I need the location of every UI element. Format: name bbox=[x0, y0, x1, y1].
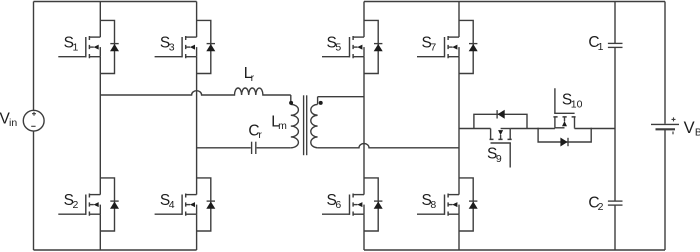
svg-text:1: 1 bbox=[73, 42, 79, 54]
transistor S2 (with body diode) bbox=[58, 178, 119, 231]
transistor S6 (with body diode) bbox=[322, 178, 383, 231]
wire Lr to transformer bbox=[263, 94, 291, 96]
wire top bus left bbox=[34, 1, 197, 3]
transistor S3 (with body diode) bbox=[155, 20, 216, 73]
svg-text:in: in bbox=[9, 117, 17, 129]
label Lm bbox=[271, 114, 287, 133]
transistor S9 (horizontal, gate below, with anti-parallel diode cathode-left) bbox=[474, 110, 527, 171]
capacitor Cr bbox=[252, 142, 291, 154]
wire leg D (S7/S8 bridge leg) bbox=[458, 2, 460, 251]
label S10 bbox=[562, 91, 583, 110]
transformer primary winding Lm bbox=[291, 95, 299, 148]
svg-text:5: 5 bbox=[335, 42, 341, 54]
transformer secondary dot bbox=[319, 101, 323, 105]
wire primary mid rail with hop over leg B bbox=[100, 91, 233, 95]
label S1 bbox=[64, 34, 79, 53]
wire secondary top (to leg C mid) bbox=[318, 96, 364, 98]
wire output mid rail segments bbox=[459, 128, 615, 130]
transformer primary dot bbox=[289, 101, 293, 105]
svg-text:7: 7 bbox=[430, 42, 436, 54]
capacitor C1 bbox=[608, 2, 623, 129]
svg-text:6: 6 bbox=[335, 199, 341, 211]
svg-text:10: 10 bbox=[571, 99, 583, 111]
capacitor C2 bbox=[608, 129, 623, 251]
wire S10 drain-source stubs to rail level bbox=[555, 127, 575, 130]
svg-text:2: 2 bbox=[598, 201, 604, 213]
label VB bbox=[684, 119, 700, 138]
wire bottom bus right bbox=[364, 249, 665, 251]
svg-text:B: B bbox=[695, 126, 700, 138]
battery VB bbox=[651, 2, 679, 251]
svg-text:r: r bbox=[251, 72, 255, 84]
label S3 bbox=[160, 34, 175, 53]
label S6 bbox=[327, 192, 342, 211]
transformer core bbox=[304, 95, 307, 155]
wire tank bottom (leg B mid to Cr) bbox=[197, 147, 251, 149]
label S2 bbox=[64, 192, 79, 211]
label C2 bbox=[588, 194, 603, 213]
gate lead trims (white overlays) bbox=[510, 84, 555, 171]
label Lr bbox=[244, 65, 255, 84]
transistor S4 (with body diode) bbox=[155, 178, 216, 231]
wire top bus right bbox=[364, 1, 665, 3]
label S8 bbox=[422, 192, 437, 211]
source Vin bbox=[23, 2, 44, 251]
svg-text:3: 3 bbox=[169, 42, 175, 54]
wire bottom bus left bbox=[34, 249, 197, 251]
svg-text:4: 4 bbox=[169, 199, 175, 211]
inductor Lr bbox=[233, 88, 263, 95]
svg-text:2: 2 bbox=[73, 199, 79, 211]
transistor S8 (with body diode) bbox=[417, 178, 478, 231]
label Vin bbox=[0, 110, 17, 129]
svg-text:m: m bbox=[278, 120, 287, 132]
wire secondary bottom with hop over leg C (to leg D mid) bbox=[318, 144, 459, 148]
svg-text:8: 8 bbox=[430, 199, 436, 211]
wire leg B (S3/S4 bridge leg) bbox=[196, 2, 198, 251]
svg-text:9: 9 bbox=[496, 153, 502, 165]
transistor S5 (with body diode) bbox=[322, 20, 383, 73]
label S9 bbox=[487, 146, 502, 165]
transistor S7 (with body diode) bbox=[417, 20, 478, 73]
svg-text:r: r bbox=[258, 129, 262, 141]
label S7 bbox=[422, 34, 437, 53]
label S4 bbox=[160, 192, 175, 211]
transistor S10 (horizontal, gate above, with anti-parallel diode cathode-right) bbox=[538, 86, 591, 147]
svg-text:1: 1 bbox=[598, 41, 604, 53]
wire leg C (S5/S6 bridge leg) bbox=[363, 2, 365, 251]
label Cr bbox=[248, 123, 262, 142]
label C1 bbox=[588, 34, 603, 53]
svg-text:V: V bbox=[684, 119, 695, 137]
wire leg A (S1/S2 bridge leg) bbox=[99, 2, 101, 251]
label S5 bbox=[327, 34, 342, 53]
transistor S1 (with body diode) bbox=[58, 20, 119, 73]
transformer secondary winding bbox=[311, 97, 318, 148]
